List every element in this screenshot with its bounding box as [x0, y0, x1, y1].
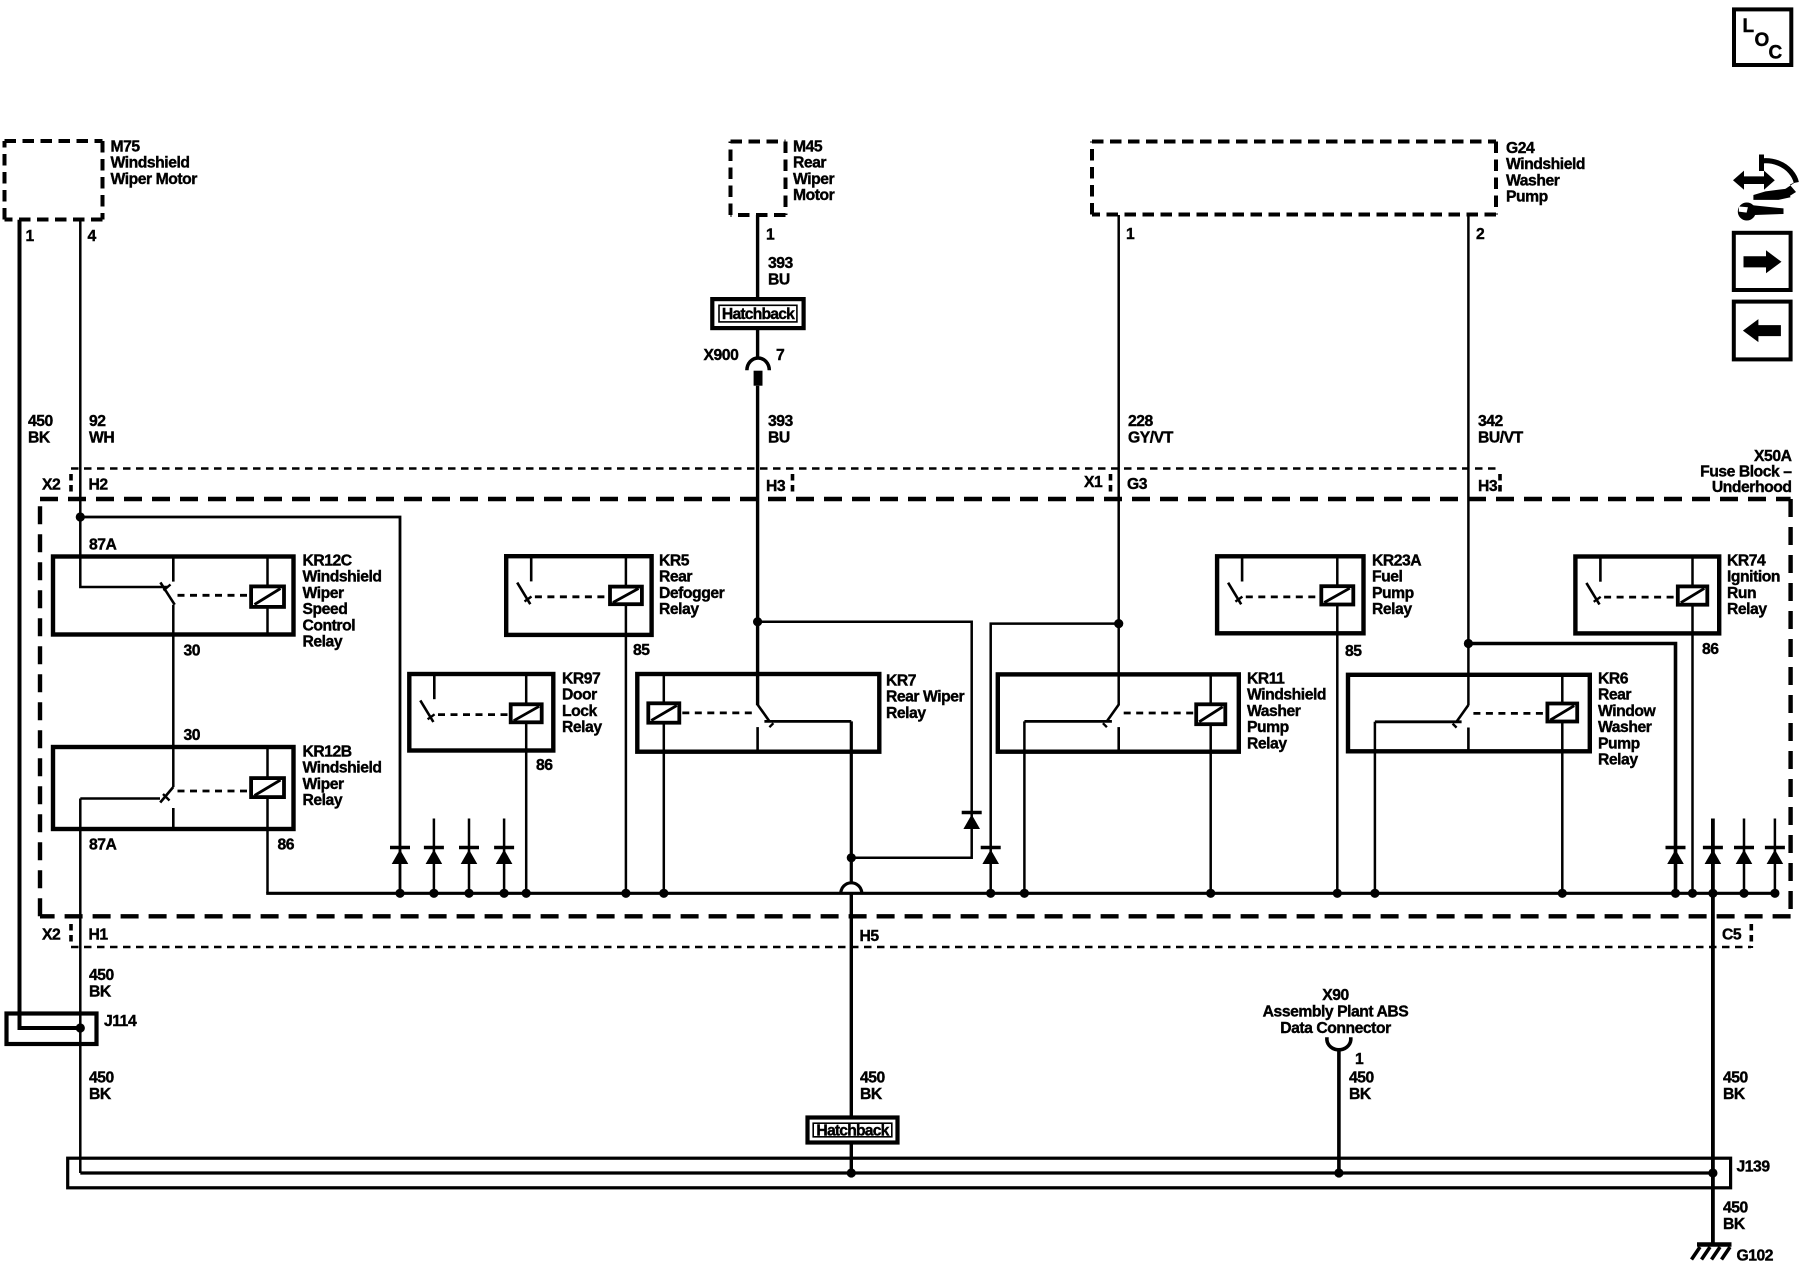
svg-text:O: O	[1755, 30, 1769, 51]
wire KR23A coil 85 to ground bus	[1336, 605, 1339, 894]
connector line H2/H3/G3 (top of fuse block)	[71, 469, 1500, 493]
junction node at 87A feed	[76, 512, 85, 521]
Hatchback option box (top)	[712, 299, 803, 328]
svg-text:X2: X2	[42, 477, 61, 494]
ground G102	[1692, 1245, 1774, 1265]
svg-text:450BK: 450BK	[1723, 1070, 1749, 1104]
suppression diode stub 3	[494, 819, 514, 894]
svg-text:87A: 87A	[89, 537, 117, 554]
junction node KR7 output with diode branch	[847, 853, 856, 862]
Hatchback option box (bottom)	[808, 1118, 898, 1143]
wire 228 GY/VT from G24 pin 1 to KR11	[1117, 215, 1120, 705]
svg-text:86: 86	[536, 757, 553, 774]
wire 450 BK from X90 to J139	[1337, 1051, 1341, 1174]
forward arrow legend box	[1734, 233, 1791, 290]
connector X90 symbol	[1327, 1037, 1351, 1050]
diode (KR7 loop)	[962, 813, 982, 830]
svg-text:L: L	[1743, 16, 1755, 37]
power and signal distribution icon	[1733, 155, 1798, 221]
diode (KR11 feed)	[981, 848, 1001, 865]
wire KR12B coil to ground bus	[266, 797, 269, 893]
connector line H1/H5/C5 (bottom of fuse block)	[71, 924, 1751, 948]
relay KR23A Fuel Pump Relay	[1217, 553, 1421, 634]
relay KR97 Door Lock Relay	[409, 671, 602, 751]
svg-text:J139: J139	[1737, 1159, 1771, 1176]
svg-text:4: 4	[88, 228, 97, 245]
diode on feed line at bus	[390, 848, 410, 865]
wire KR74 coil 86 to ground bus	[1691, 605, 1694, 894]
svg-text:450BK: 450BK	[1349, 1070, 1375, 1104]
wire 450 BK through C5 to ground	[1711, 893, 1715, 1243]
svg-text:87A: 87A	[89, 837, 117, 854]
svg-text:C: C	[1769, 43, 1783, 64]
svg-text:85: 85	[1345, 643, 1362, 660]
wire 393 BU from X900 to KR7	[756, 386, 759, 706]
svg-text:X1: X1	[1084, 474, 1103, 491]
suppression diode stub 1	[424, 819, 444, 894]
svg-text:H3: H3	[766, 478, 786, 495]
wire from Hatchback bottom to J139	[850, 1143, 853, 1174]
relay KR12B Windshield Wiper Relay	[53, 744, 382, 830]
wire KR12B 87A to J139	[79, 799, 82, 1174]
svg-text:Hatchback: Hatchback	[722, 306, 795, 323]
wire terminal 30 KR12C to KR12B	[172, 605, 175, 787]
back arrow legend box	[1734, 302, 1791, 360]
svg-text:G3: G3	[1127, 476, 1148, 493]
wire KR7 switch output to Hatchback (hops over bus)	[850, 721, 853, 883]
junction node on 228 GY/VT	[1114, 619, 1123, 628]
wire KR97 coil 86 to ground bus	[525, 722, 528, 893]
svg-text:393BU: 393BU	[768, 413, 794, 447]
svg-text:30: 30	[184, 643, 201, 660]
svg-text:30: 30	[184, 727, 201, 744]
svg-text:7: 7	[776, 347, 785, 364]
svg-text:450BK: 450BK	[1723, 1200, 1749, 1234]
svg-text:Hatchback: Hatchback	[816, 1123, 889, 1140]
diode (KR6 feed)	[1666, 848, 1686, 865]
svg-text:86: 86	[278, 837, 295, 854]
wire KR7 feed loop with diode	[758, 622, 972, 858]
wire feed from 87A junction to bus diode	[80, 517, 400, 893]
junction node on 342 BU/VT	[1464, 639, 1473, 648]
wire 92 WH from M75 pin 4 into KR12C terminal 87A	[80, 220, 167, 587]
junction node in J114	[76, 1023, 85, 1032]
wire 393 BU from M45 pin 1 to Hatchback box	[756, 215, 759, 299]
suppression diode stub 2	[459, 819, 479, 894]
fuse block X50A dashed outline	[40, 499, 1791, 916]
bus junction nodes	[395, 889, 1779, 898]
svg-text:86: 86	[1702, 641, 1719, 658]
relay KR6 Rear Window Washer Pump Relay	[1348, 671, 1657, 769]
connector X900 symbol (arc and pin)	[747, 358, 769, 386]
svg-text:G102: G102	[1737, 1248, 1774, 1265]
svg-text:1: 1	[26, 228, 35, 245]
svg-text:450BK: 450BK	[28, 413, 54, 447]
svg-text:J114: J114	[104, 1013, 137, 1030]
wire KR11 switch output to ground bus	[1023, 721, 1026, 893]
svg-text:H3: H3	[1478, 478, 1498, 495]
wire KR6 switch output to ground bus	[1374, 722, 1377, 894]
svg-text:1: 1	[766, 227, 775, 244]
wire 342 BU/VT from G24 pin 2 to KR6	[1467, 215, 1470, 705]
relay KR74 Ignition Run Relay	[1575, 553, 1780, 634]
svg-text:450BK: 450BK	[89, 1070, 115, 1104]
LOC legend box	[1734, 9, 1791, 65]
svg-text:H2: H2	[89, 477, 109, 494]
relay KR5 Rear Defogger Relay	[506, 553, 724, 635]
ground bus inside fuse block	[266, 892, 1775, 895]
svg-text:C5: C5	[1722, 927, 1742, 944]
suppression diode stub right 2	[1765, 819, 1785, 894]
ground distribution bus J139	[68, 1158, 1771, 1188]
relay KR12C Windshield Wiper Speed Control Relay	[53, 553, 382, 651]
wire KR7 coil to ground bus	[663, 723, 666, 894]
svg-text:1: 1	[1126, 226, 1135, 243]
relay KR11 Windshield Washer Pump Relay	[998, 671, 1326, 753]
splice J114 box	[7, 1013, 137, 1044]
junction node on 393 BU at KR7 feed	[753, 617, 762, 626]
relay KR7 Rear Wiper Relay	[637, 673, 964, 752]
svg-text:2: 2	[1476, 226, 1485, 243]
wire from Hatchback to connector X900	[756, 328, 759, 358]
wire KR11 coil to ground bus	[1209, 724, 1212, 893]
suppression diode stub right 1	[1734, 819, 1754, 894]
motor M45 (dashed component box)	[731, 139, 835, 216]
diode on C5 ground wire	[1703, 819, 1723, 894]
wire KR6 feed branch with diode (thick)	[1468, 644, 1675, 894]
pump G24 (dashed component box)	[1092, 140, 1585, 215]
svg-text:H1: H1	[89, 927, 109, 944]
svg-text:1: 1	[1355, 1051, 1364, 1068]
wire KR11 feed branch with diode	[991, 624, 1119, 894]
motor M75 (dashed component box)	[5, 139, 198, 220]
svg-text:X900: X900	[704, 347, 740, 364]
svg-text:450BK: 450BK	[89, 967, 115, 1001]
svg-text:85: 85	[633, 642, 650, 659]
svg-text:H5: H5	[860, 928, 880, 945]
svg-text:KR97DoorLockRelay: KR97DoorLockRelay	[562, 671, 602, 737]
svg-text:393BU: 393BU	[768, 255, 794, 289]
junction nodes on J139	[847, 1168, 1718, 1177]
wire KR5 coil 85 to ground bus	[625, 604, 628, 893]
wire KR6 coil to ground bus	[1561, 722, 1564, 894]
wire 450 BK from M75 pin 1 to J114	[20, 220, 81, 1028]
svg-text:X2: X2	[42, 927, 61, 944]
svg-text:450BK: 450BK	[860, 1070, 886, 1104]
